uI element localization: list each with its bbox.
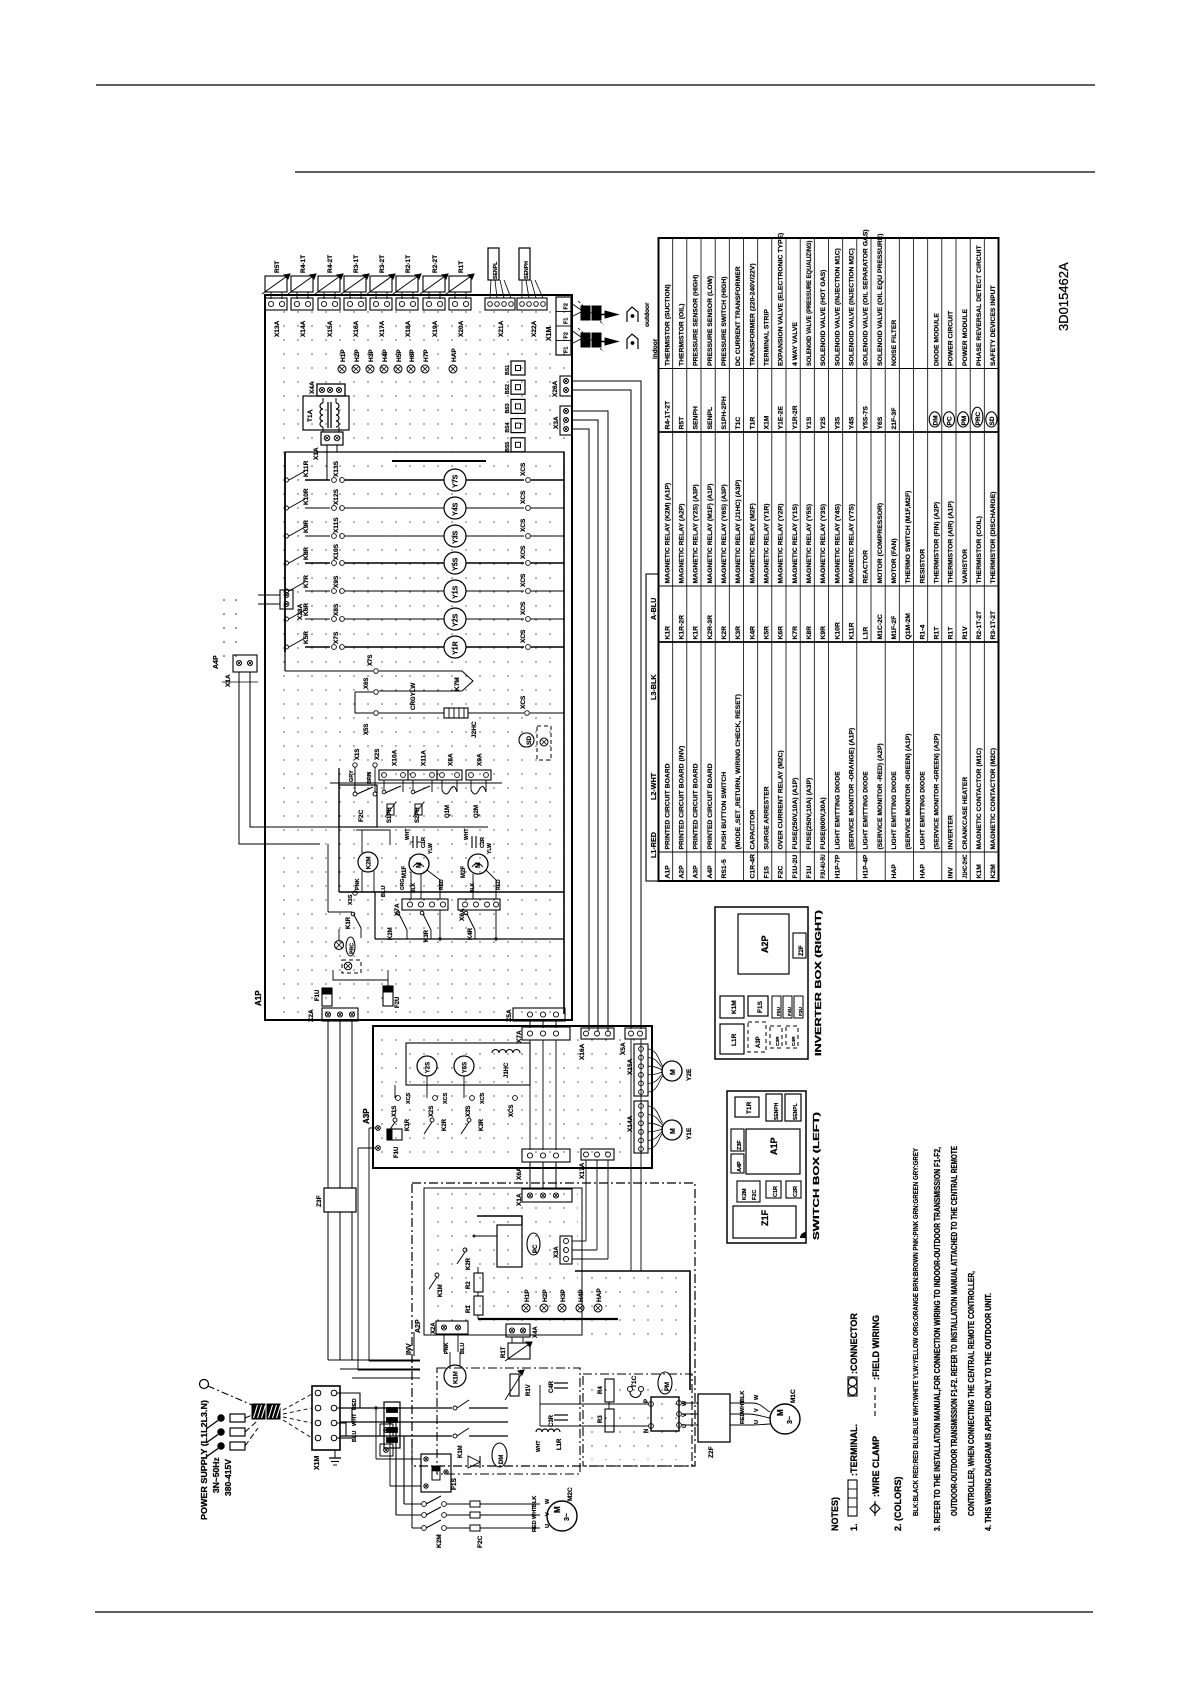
A2P bottom bus bbox=[478, 1318, 618, 1320]
svg-text:TERMINAL STRIP: TERMINAL STRIP bbox=[763, 309, 770, 366]
page bottom rule bbox=[95, 1611, 1093, 1613]
svg-text:K3R: K3R bbox=[735, 626, 742, 640]
relay ladder left bus bbox=[284, 452, 286, 652]
thermistor R5T bbox=[265, 276, 287, 292]
svg-text:SENPL: SENPL bbox=[707, 407, 714, 430]
svg-text:PRESSURE SENSOR (HIGH): PRESSURE SENSOR (HIGH) bbox=[693, 275, 700, 366]
svg-text:Y1R-2R: Y1R-2R bbox=[792, 405, 799, 429]
svg-text:BLU: BLU bbox=[381, 886, 387, 897]
svg-text:V: V bbox=[754, 1408, 760, 1412]
svg-text:XCS: XCS bbox=[520, 518, 527, 532]
svg-text:CRANKCASE HEATER: CRANKCASE HEATER bbox=[962, 777, 969, 850]
svg-text:SAFETY DEVICES INPUT: SAFETY DEVICES INPUT bbox=[990, 284, 997, 366]
svg-text:NOISE FILTER: NOISE FILTER bbox=[891, 320, 898, 366]
connector X14A expansion valve bbox=[634, 1101, 648, 1153]
C2R block bbox=[786, 1181, 801, 1198]
svg-text:PRINTED CIRCUIT BOARD: PRINTED CIRCUIT BOARD bbox=[693, 763, 700, 849]
relay contact K7R row bbox=[285, 589, 289, 593]
svg-text:3. REFER TO THE INSTALLATION M: 3. REFER TO THE INSTALLATION MANUAL,FOR … bbox=[932, 1147, 942, 1531]
svg-text:TRANSFORMER (220-240V/22V): TRANSFORMER (220-240V/22V) bbox=[749, 263, 756, 366]
phase wires from X1M bbox=[337, 1393, 360, 1408]
relay contact K10R row bbox=[285, 506, 289, 510]
SENPL block bbox=[785, 1094, 801, 1121]
legend table header strip bbox=[646, 574, 659, 881]
svg-text:K11R: K11R bbox=[303, 460, 310, 477]
svg-text:R5T: R5T bbox=[274, 261, 281, 273]
svg-text:3D015462A: 3D015462A bbox=[1056, 262, 1071, 331]
svg-text:Q2M: Q2M bbox=[474, 805, 480, 818]
svg-text:K1R: K1R bbox=[693, 626, 700, 640]
svg-text:LIGHT EMITTING DIODE: LIGHT EMITTING DIODE bbox=[834, 771, 841, 850]
svg-text:K9R: K9R bbox=[820, 626, 827, 640]
svg-text:Z2F: Z2F bbox=[799, 945, 805, 956]
svg-text:BS5: BS5 bbox=[505, 442, 511, 452]
svg-text:PHASE REVERSAL DETECT CIRCUIT: PHASE REVERSAL DETECT CIRCUIT bbox=[976, 244, 983, 366]
svg-text:XCS: XCS bbox=[520, 601, 527, 615]
svg-text:X1S: X1S bbox=[392, 1106, 398, 1117]
svg-text:VARISTOR: VARISTOR bbox=[962, 549, 969, 584]
svg-text:M2C: M2C bbox=[567, 1487, 574, 1501]
fan motor M2F with capacitor C2R bbox=[471, 836, 473, 848]
power circuit block PC bbox=[497, 1225, 522, 1267]
svg-text:A4P: A4P bbox=[707, 865, 714, 879]
connector X3A on A2P bbox=[560, 1236, 572, 1264]
svg-text:POWER CIRCUIT: POWER CIRCUIT bbox=[948, 310, 955, 366]
svg-text:X1M: X1M bbox=[763, 415, 770, 429]
svg-text:J1HC-2HC: J1HC-2HC bbox=[962, 854, 969, 878]
svg-text:L1R: L1R bbox=[863, 627, 870, 640]
svg-text:R2-2T: R2-2T bbox=[432, 255, 439, 273]
svg-text:BS4: BS4 bbox=[505, 422, 511, 432]
svg-text:X3S: X3S bbox=[348, 894, 354, 905]
svg-text:RS1-5: RS1-5 bbox=[721, 859, 728, 878]
connector X6A bbox=[458, 899, 500, 910]
connector X4A on A2P bbox=[506, 1324, 530, 1337]
F1S block bbox=[748, 996, 768, 1016]
SENPH block bbox=[766, 1094, 782, 1121]
svg-text:K1M: K1M bbox=[453, 1371, 459, 1384]
svg-text:W: W bbox=[545, 1498, 551, 1504]
surge arrester E1S block bbox=[384, 1402, 400, 1448]
svg-text:X4A: X4A bbox=[533, 1326, 539, 1338]
svg-text:X14A: X14A bbox=[627, 1115, 634, 1132]
svg-text:Y5S: Y5S bbox=[453, 557, 460, 571]
svg-text:WHT: WHT bbox=[405, 829, 411, 840]
svg-text:MOTOR (COMPRESSOR): MOTOR (COMPRESSOR) bbox=[877, 503, 884, 584]
svg-text::WIRE CLAMP: :WIRE CLAMP bbox=[871, 1436, 881, 1497]
svg-text:K7R: K7R bbox=[303, 575, 310, 588]
thermistor R1T fin bbox=[508, 1343, 530, 1359]
solenoid valve coil Y1S bbox=[444, 580, 466, 602]
svg-text:PNK: PNK bbox=[444, 1342, 450, 1354]
svg-text:4 WAY VALVE: 4 WAY VALVE bbox=[792, 322, 799, 366]
svg-text:Y6S: Y6S bbox=[877, 416, 884, 429]
svg-text:Q1M: Q1M bbox=[445, 805, 451, 818]
K1M block bbox=[720, 996, 744, 1018]
svg-text:F1U-2U: F1U-2U bbox=[792, 855, 799, 879]
svg-text:R2-1T-2T: R2-1T-2T bbox=[976, 610, 983, 640]
solenoid valve coil Y7S bbox=[444, 469, 466, 491]
pressure switch S2PH bbox=[412, 780, 414, 790]
svg-text:MAGNETIC RELAY (Y4S): MAGNETIC RELAY (Y4S) bbox=[834, 504, 841, 584]
A3P left feed wires bbox=[369, 1127, 375, 1129]
svg-text:PRESSURE SWITCH (HIGH): PRESSURE SWITCH (HIGH) bbox=[721, 277, 728, 367]
svg-text:RED: RED bbox=[532, 1520, 538, 1532]
svg-text:C4R: C4R bbox=[549, 1380, 555, 1393]
svg-text:X7A: X7A bbox=[516, 1030, 523, 1043]
svg-text:K4R: K4R bbox=[468, 927, 474, 940]
current transformer T1C bbox=[627, 1386, 632, 1391]
svg-text:(SERVICE MONITOR -GREEN) (A2P): (SERVICE MONITOR -GREEN) (A2P) bbox=[933, 733, 940, 849]
connector X14A bbox=[291, 298, 313, 310]
svg-text:XCS: XCS bbox=[520, 545, 527, 559]
svg-text:K1M: K1M bbox=[458, 1445, 464, 1458]
svg-text:H5P: H5P bbox=[396, 349, 403, 362]
connector X26A bbox=[560, 376, 572, 396]
fuse F2U on A1P bbox=[383, 986, 393, 1006]
svg-text:SOLENOID VALVE (OIL SEPARATOR: SOLENOID VALVE (OIL SEPARATOR GAS) bbox=[863, 229, 870, 366]
relay coil Y2S bbox=[417, 1056, 437, 1076]
supply fuses bbox=[218, 1415, 224, 1421]
svg-text:XCS: XCS bbox=[520, 573, 527, 587]
svg-text:SOLENOID VALVE (INJECTION M1C): SOLENOID VALVE (INJECTION M1C) bbox=[834, 248, 841, 366]
svg-text:THERMISTOR (AIR) (A1P): THERMISTOR (AIR) (A1P) bbox=[948, 501, 955, 584]
svg-text:380-415V: 380-415V bbox=[223, 1459, 233, 1496]
svg-text:X11A: X11A bbox=[421, 750, 428, 766]
wire clamp to outdoor bbox=[571, 303, 581, 310]
svg-text:R3-2T: R3-2T bbox=[379, 255, 386, 273]
connector X20A bbox=[449, 298, 471, 310]
page top rule bbox=[96, 84, 1095, 86]
connector X6A on A3P bbox=[522, 1149, 570, 1162]
svg-text:R1: R1 bbox=[466, 1305, 472, 1313]
svg-text::FIELD WIRING: :FIELD WIRING bbox=[871, 1315, 881, 1380]
svg-text:A1P: A1P bbox=[664, 865, 671, 879]
svg-text:OVER CURRENT RELAY (M2C): OVER CURRENT RELAY (M2C) bbox=[778, 750, 785, 849]
svg-text:K1R: K1R bbox=[405, 1118, 411, 1131]
svg-text:LIGHT EMITTING DIODE: LIGHT EMITTING DIODE bbox=[919, 771, 926, 850]
connector X16A on A3P bbox=[581, 1028, 614, 1039]
field wiring clamp bbox=[252, 1404, 265, 1419]
svg-text:BLK:BLACK RED:RED BLU:BLUE WHT: BLK:BLACK RED:RED BLU:BLUE WHT:WHITE YLW… bbox=[911, 1148, 920, 1516]
svg-text:M: M bbox=[670, 1069, 677, 1075]
svg-text:F5U: F5U bbox=[776, 1006, 782, 1016]
svg-text:X11S: X11S bbox=[333, 517, 340, 533]
svg-text:EXPANSION VALVE (ELECTRONIC TY: EXPANSION VALVE (ELECTRONIC TYPE) bbox=[778, 233, 785, 366]
svg-text:X14A: X14A bbox=[300, 320, 307, 337]
svg-text:X16A: X16A bbox=[353, 320, 360, 337]
power module PM bbox=[658, 1372, 672, 1394]
svg-text:R2-1T: R2-1T bbox=[405, 255, 412, 273]
svg-text:H1P: H1P bbox=[340, 349, 347, 362]
relay contact K4R bbox=[464, 911, 468, 915]
connector X1A on A2P bbox=[522, 1189, 572, 1202]
svg-text:A3P: A3P bbox=[756, 1036, 762, 1048]
svg-text:X1A: X1A bbox=[516, 1193, 523, 1206]
A2P block bbox=[738, 914, 789, 974]
svg-text:GRY: GRY bbox=[349, 770, 355, 782]
svg-text:M2F: M2F bbox=[461, 866, 467, 878]
svg-text:HAP: HAP bbox=[891, 864, 898, 879]
svg-text:RED: RED bbox=[352, 1398, 358, 1410]
thermistor R1T bbox=[449, 276, 471, 292]
svg-text:Y4S: Y4S bbox=[848, 416, 855, 429]
svg-text:K1M: K1M bbox=[731, 1000, 738, 1014]
inverter box (right) outline bbox=[715, 907, 808, 1059]
svg-text:A2P: A2P bbox=[678, 865, 685, 879]
svg-text:PRINTED CIRCUIT BOARD (INV): PRINTED CIRCUIT BOARD (INV) bbox=[678, 746, 685, 850]
dotted grid around power module bbox=[586, 1378, 688, 1460]
printed circuit board A1P outline bbox=[265, 295, 572, 1020]
connector X19A bbox=[423, 298, 445, 310]
svg-text:R2: R2 bbox=[466, 1281, 472, 1289]
wires X17A to X3A and PM bus bbox=[585, 1160, 587, 1241]
relay contact K3R on A3P bbox=[467, 1118, 471, 1122]
svg-text:XCS: XCS bbox=[520, 462, 527, 476]
fuses F3U F4U F5U blocks bbox=[772, 996, 781, 1018]
svg-text:XCS: XCS bbox=[406, 1092, 412, 1104]
wires into PM bbox=[540, 1403, 649, 1405]
K2M F2C block bbox=[737, 1181, 760, 1202]
safety device dashed box bbox=[342, 960, 361, 973]
svg-text:K6R: K6R bbox=[303, 603, 310, 616]
capacitor C4R bbox=[554, 1382, 568, 1384]
svg-text:K2M: K2M bbox=[366, 857, 372, 870]
svg-text:Y2S: Y2S bbox=[453, 613, 460, 627]
svg-text:MAGNETIC RELAY (K2M) (A1P): MAGNETIC RELAY (K2M) (A1P) bbox=[664, 483, 671, 584]
relay contact K1R on A3P bbox=[393, 1118, 397, 1122]
svg-text:PC: PC bbox=[533, 1244, 539, 1253]
svg-text:FUSE(250V,10A) (A3P): FUSE(250V,10A) (A3P) bbox=[806, 778, 813, 850]
svg-text:X21A: X21A bbox=[498, 320, 505, 337]
svg-text:Z3F: Z3F bbox=[316, 1195, 323, 1207]
C1R block bbox=[766, 1181, 781, 1198]
svg-text:F2C: F2C bbox=[778, 866, 785, 879]
svg-text:H4P: H4P bbox=[382, 349, 389, 362]
svg-text:BLK: BLK bbox=[411, 882, 417, 893]
svg-text:X1M: X1M bbox=[314, 1455, 321, 1470]
svg-text:R1T: R1T bbox=[458, 261, 465, 273]
svg-text:C2R: C2R bbox=[480, 837, 486, 848]
connector X17A bbox=[370, 298, 392, 310]
wire turns into A2P area bbox=[328, 1359, 420, 1361]
svg-text:indoor: indoor bbox=[652, 338, 659, 359]
svg-text:R1T: R1T bbox=[501, 1346, 507, 1358]
svg-text:PM: PM bbox=[961, 416, 968, 426]
svg-text:K2R: K2R bbox=[721, 626, 728, 640]
A1P block bbox=[746, 1129, 800, 1174]
svg-text:K2M: K2M bbox=[742, 1188, 748, 1200]
svg-text:R4-1T: R4-1T bbox=[300, 255, 307, 273]
svg-text:Z2F: Z2F bbox=[708, 1446, 715, 1458]
small terminals bottom left bbox=[380, 1424, 393, 1436]
svg-text:MAGNETIC RELAY (Y5S): MAGNETIC RELAY (Y5S) bbox=[806, 504, 813, 584]
svg-text:BS1: BS1 bbox=[505, 365, 511, 375]
svg-text:SENPH: SENPH bbox=[524, 261, 530, 279]
wires X5A to X7A bbox=[529, 1021, 531, 1028]
svg-text:SOLENOID VALVE (INJECTION M2C): SOLENOID VALVE (INJECTION M2C) bbox=[848, 248, 855, 366]
svg-text:C3R: C3R bbox=[775, 1036, 781, 1046]
svg-text:Y1R: Y1R bbox=[453, 641, 460, 655]
svg-text:K1R-2R: K1R-2R bbox=[678, 615, 685, 640]
relay contact K2R on A2P bbox=[463, 1248, 467, 1252]
svg-text:PUSH BUTTON SWITCH: PUSH BUTTON SWITCH bbox=[721, 772, 728, 850]
svg-text:21F-3F: 21F-3F bbox=[891, 408, 898, 430]
svg-text:F1U: F1U bbox=[315, 990, 321, 1001]
svg-text:INVERTER BOX (RIGHT): INVERTER BOX (RIGHT) bbox=[813, 910, 823, 1056]
svg-text:RESISTOR: RESISTOR bbox=[919, 549, 926, 584]
thermistor R3-1T bbox=[344, 276, 366, 292]
svg-text:R1V: R1V bbox=[962, 626, 969, 640]
Z1F block bbox=[733, 1206, 796, 1238]
svg-text:Z3F: Z3F bbox=[737, 1140, 743, 1150]
svg-text:X26A: X26A bbox=[552, 380, 559, 397]
solenoid valve coil Y4S bbox=[444, 497, 466, 519]
printed circuit board A3P outline bbox=[373, 1026, 652, 1168]
svg-text:BLK: BLK bbox=[532, 1496, 538, 1507]
svg-text:CRGYLW: CRGYLW bbox=[410, 683, 417, 710]
svg-text:K2M: K2M bbox=[388, 927, 394, 940]
svg-text:F2C: F2C bbox=[358, 809, 365, 822]
svg-text:A-BLU: A-BLU bbox=[649, 598, 658, 620]
svg-text:1.: 1. bbox=[849, 1523, 859, 1531]
mid bus wire bbox=[339, 891, 564, 893]
connector X7A bbox=[402, 899, 448, 910]
connector X2A on A2P bbox=[436, 1321, 468, 1334]
connector X1A on T1A bbox=[321, 432, 343, 445]
svg-text:(SERVICE MONITOR -RED) (A2P): (SERVICE MONITOR -RED) (A2P) bbox=[877, 743, 884, 849]
svg-text:THERMISTOR (FIN) (A2P): THERMISTOR (FIN) (A2P) bbox=[933, 502, 940, 584]
svg-text:H6P: H6P bbox=[409, 349, 416, 362]
svg-text:OUTDOOR-OUTDOOR TRANSMISSION F: OUTDOOR-OUTDOOR TRANSMISSION F1-F2. REFE… bbox=[949, 1146, 959, 1516]
svg-text:CONTROLLER, WHEN CONNECTING TH: CONTROLLER, WHEN CONNECTING THE CENTRAL … bbox=[966, 1271, 976, 1516]
solenoid valve coil Y5S bbox=[444, 552, 466, 574]
svg-text:M1F: M1F bbox=[402, 866, 408, 878]
thermo switch Q2M bbox=[470, 780, 472, 790]
svg-text:MAGNETIC RELAY (M1F) (A1P): MAGNETIC RELAY (M1F) (A1P) bbox=[707, 483, 714, 583]
A4P block bbox=[731, 1154, 744, 1173]
svg-text:MOTOR (FAN): MOTOR (FAN) bbox=[891, 538, 898, 583]
noise filter Z3F on wires bbox=[327, 1021, 329, 1360]
svg-text:SURGE ARRESTER: SURGE ARRESTER bbox=[763, 786, 770, 849]
svg-text:K2R-3R: K2R-3R bbox=[707, 615, 714, 640]
svg-text:BLK: BLK bbox=[740, 1391, 746, 1402]
diode DM bbox=[468, 1456, 480, 1468]
svg-text:X6S: X6S bbox=[364, 678, 370, 689]
svg-text:Y7S: Y7S bbox=[453, 474, 460, 488]
svg-text:F3U: F3U bbox=[798, 1006, 804, 1016]
svg-text:CAPACITOR: CAPACITOR bbox=[749, 810, 756, 850]
connector X3A bbox=[560, 406, 572, 435]
svg-text:POWER MODULE: POWER MODULE bbox=[962, 309, 969, 366]
supply terminal L1 bbox=[200, 1380, 209, 1389]
svg-text:M: M bbox=[553, 1506, 562, 1513]
lower junction wire bbox=[375, 938, 564, 940]
svg-text:BRN: BRN bbox=[367, 772, 373, 784]
svg-text:Z1F: Z1F bbox=[760, 1209, 770, 1226]
svg-text:L1R: L1R bbox=[557, 1438, 563, 1450]
protective earth on X1M bbox=[334, 1450, 336, 1458]
svg-text:3~: 3~ bbox=[787, 1416, 794, 1424]
svg-text:K7M: K7M bbox=[454, 677, 461, 691]
connector X15A bbox=[318, 298, 340, 310]
svg-text:PRC: PRC bbox=[350, 943, 356, 954]
svg-text:HAP: HAP bbox=[451, 348, 458, 362]
connector X5A on A3P bbox=[625, 1028, 646, 1039]
LEDs H1P..H4P HAP on A2P bbox=[522, 1304, 530, 1312]
svg-text:X4A: X4A bbox=[309, 381, 316, 394]
svg-text:DM: DM bbox=[932, 415, 939, 425]
svg-text:Y1S: Y1S bbox=[806, 416, 813, 429]
safety devices input SD stadium bbox=[519, 733, 534, 747]
fuse F1U on A1P bbox=[322, 988, 332, 1006]
svg-text:SD: SD bbox=[989, 416, 996, 425]
svg-text:MAGNETIC CONTACTOR (M2C): MAGNETIC CONTACTOR (M2C) bbox=[990, 748, 997, 850]
thermistor R4-2T bbox=[318, 276, 340, 292]
svg-text:SWITCH BOX (LEFT): SWITCH BOX (LEFT) bbox=[811, 1112, 821, 1240]
svg-text:SENPL: SENPL bbox=[793, 1103, 799, 1120]
svg-text:X2S: X2S bbox=[429, 1106, 435, 1117]
svg-text:U: U bbox=[545, 1524, 551, 1528]
svg-text:A1P: A1P bbox=[254, 990, 263, 1006]
T1R block bbox=[735, 1097, 759, 1117]
capacitor C3R bbox=[554, 1414, 568, 1416]
svg-text:THERMISTOR (DISCHARGE): THERMISTOR (DISCHARGE) bbox=[990, 491, 997, 583]
svg-text:X16A: X16A bbox=[579, 1043, 586, 1060]
crankcase heater feed X6S X5S bbox=[355, 692, 373, 713]
fuse block F1S bbox=[421, 1454, 451, 1492]
svg-text:MAGNETIC RELAY (A2P): MAGNETIC RELAY (A2P) bbox=[678, 503, 685, 583]
varistor R1V bbox=[510, 1374, 519, 1396]
svg-text:X8S: X8S bbox=[333, 603, 340, 616]
corner pocket bbox=[800, 1232, 806, 1238]
svg-text:K10R: K10R bbox=[303, 488, 310, 505]
svg-text:THERMISTOR (SUCTION): THERMISTOR (SUCTION) bbox=[664, 284, 671, 366]
svg-text:X7S: X7S bbox=[333, 631, 340, 644]
svg-text:X3A: X3A bbox=[554, 1246, 560, 1258]
svg-text:K6R: K6R bbox=[778, 626, 785, 640]
compressor motor M2C bbox=[547, 1501, 577, 1531]
svg-text:PNK: PNK bbox=[355, 878, 361, 890]
svg-text:WHT: WHT bbox=[352, 1413, 358, 1426]
svg-text:2. (COLORS): 2. (COLORS) bbox=[893, 1476, 903, 1531]
svg-text:DM: DM bbox=[499, 1455, 505, 1464]
noise filter Z2F bbox=[698, 1394, 730, 1442]
svg-text:X2A: X2A bbox=[431, 1322, 437, 1334]
resistor R4 bbox=[605, 1379, 614, 1402]
svg-text:A2P: A2P bbox=[415, 1319, 422, 1333]
crankcase heater resistor J2HC bbox=[379, 712, 444, 714]
dashed tails into X1M bbox=[283, 1394, 312, 1410]
resistor R2 bbox=[474, 1273, 483, 1292]
svg-text:X18A: X18A bbox=[405, 320, 412, 337]
svg-text:S1PH-2PH: S1PH-2PH bbox=[721, 396, 728, 429]
svg-text:SENPL: SENPL bbox=[493, 261, 499, 279]
svg-text:M: M bbox=[670, 1128, 677, 1134]
svg-text:C1R-4R: C1R-4R bbox=[749, 854, 756, 879]
svg-text:X10A: X10A bbox=[392, 749, 399, 766]
svg-text:K2R: K2R bbox=[442, 1118, 448, 1131]
svg-text:WHT: WHT bbox=[532, 1506, 538, 1519]
svg-text:PRESSURE SENSOR (LOW): PRESSURE SENSOR (LOW) bbox=[707, 276, 714, 366]
svg-text:Y4S: Y4S bbox=[453, 502, 460, 516]
solenoid valve coil Y2S bbox=[444, 608, 466, 630]
relay contact K3R bbox=[420, 911, 424, 915]
svg-text:K3R: K3R bbox=[479, 1118, 485, 1131]
svg-text:C3R: C3R bbox=[549, 1414, 555, 1427]
inverter board A2P dash-dot boundary bbox=[412, 1183, 695, 1466]
fan motor M1F with capacitor C1R bbox=[412, 836, 414, 848]
